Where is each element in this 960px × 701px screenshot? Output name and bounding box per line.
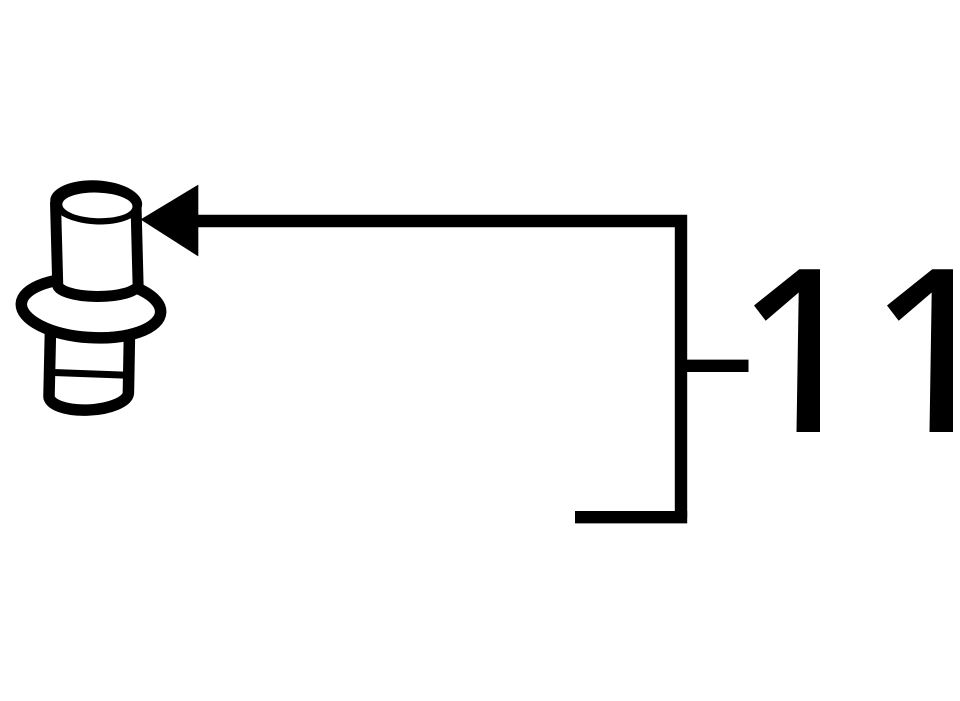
- leader line: bottom horizontal segment: [575, 511, 687, 523]
- leader line: arrow tail, corner and vertical bracket line: [198, 221, 681, 517]
- arrowhead: [141, 185, 199, 257]
- part: top rim outer ellipse: [49, 178, 143, 227]
- callout number 11: second digit 1: [887, 269, 953, 432]
- part: top cylinder body fill: [56, 202, 139, 297]
- callout number 11: first digit 1: [754, 269, 820, 432]
- part: top rim inner ellipse: [62, 191, 133, 219]
- stem outline: left wall, bottom arc, right wall: [49, 329, 130, 410]
- part: top cylinder walls and bottom arc: [56, 202, 139, 297]
- part: flange ellipse: [19, 274, 162, 342]
- leader line: middle tick to label: [675, 360, 749, 372]
- stem band line: [50, 372, 131, 375]
